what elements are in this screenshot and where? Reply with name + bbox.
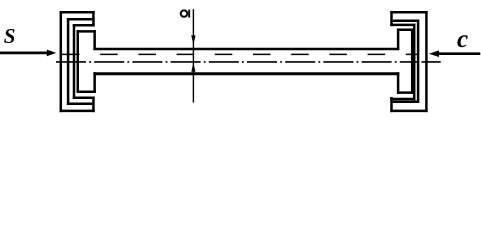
label a (drawn glyph: bowl + stem) [181,10,190,18]
S arrow head [47,50,56,57]
dimension arrow down [191,35,195,44]
c arrow head [429,50,439,57]
dimension arrow up [191,63,195,72]
right flange [390,11,427,112]
svg-text:S: S [4,24,16,48]
c arrow shaft [439,52,481,55]
left flange [60,11,96,112]
tube bottom line [93,72,399,75]
dimension line a (vertical) [192,9,194,102]
center line (dash-dot) [56,61,418,63]
svg-text:c: c [457,26,468,53]
tube top line [93,48,399,50]
S arrow shaft [0,52,49,55]
tube hidden (dashed) line [62,53,419,55]
